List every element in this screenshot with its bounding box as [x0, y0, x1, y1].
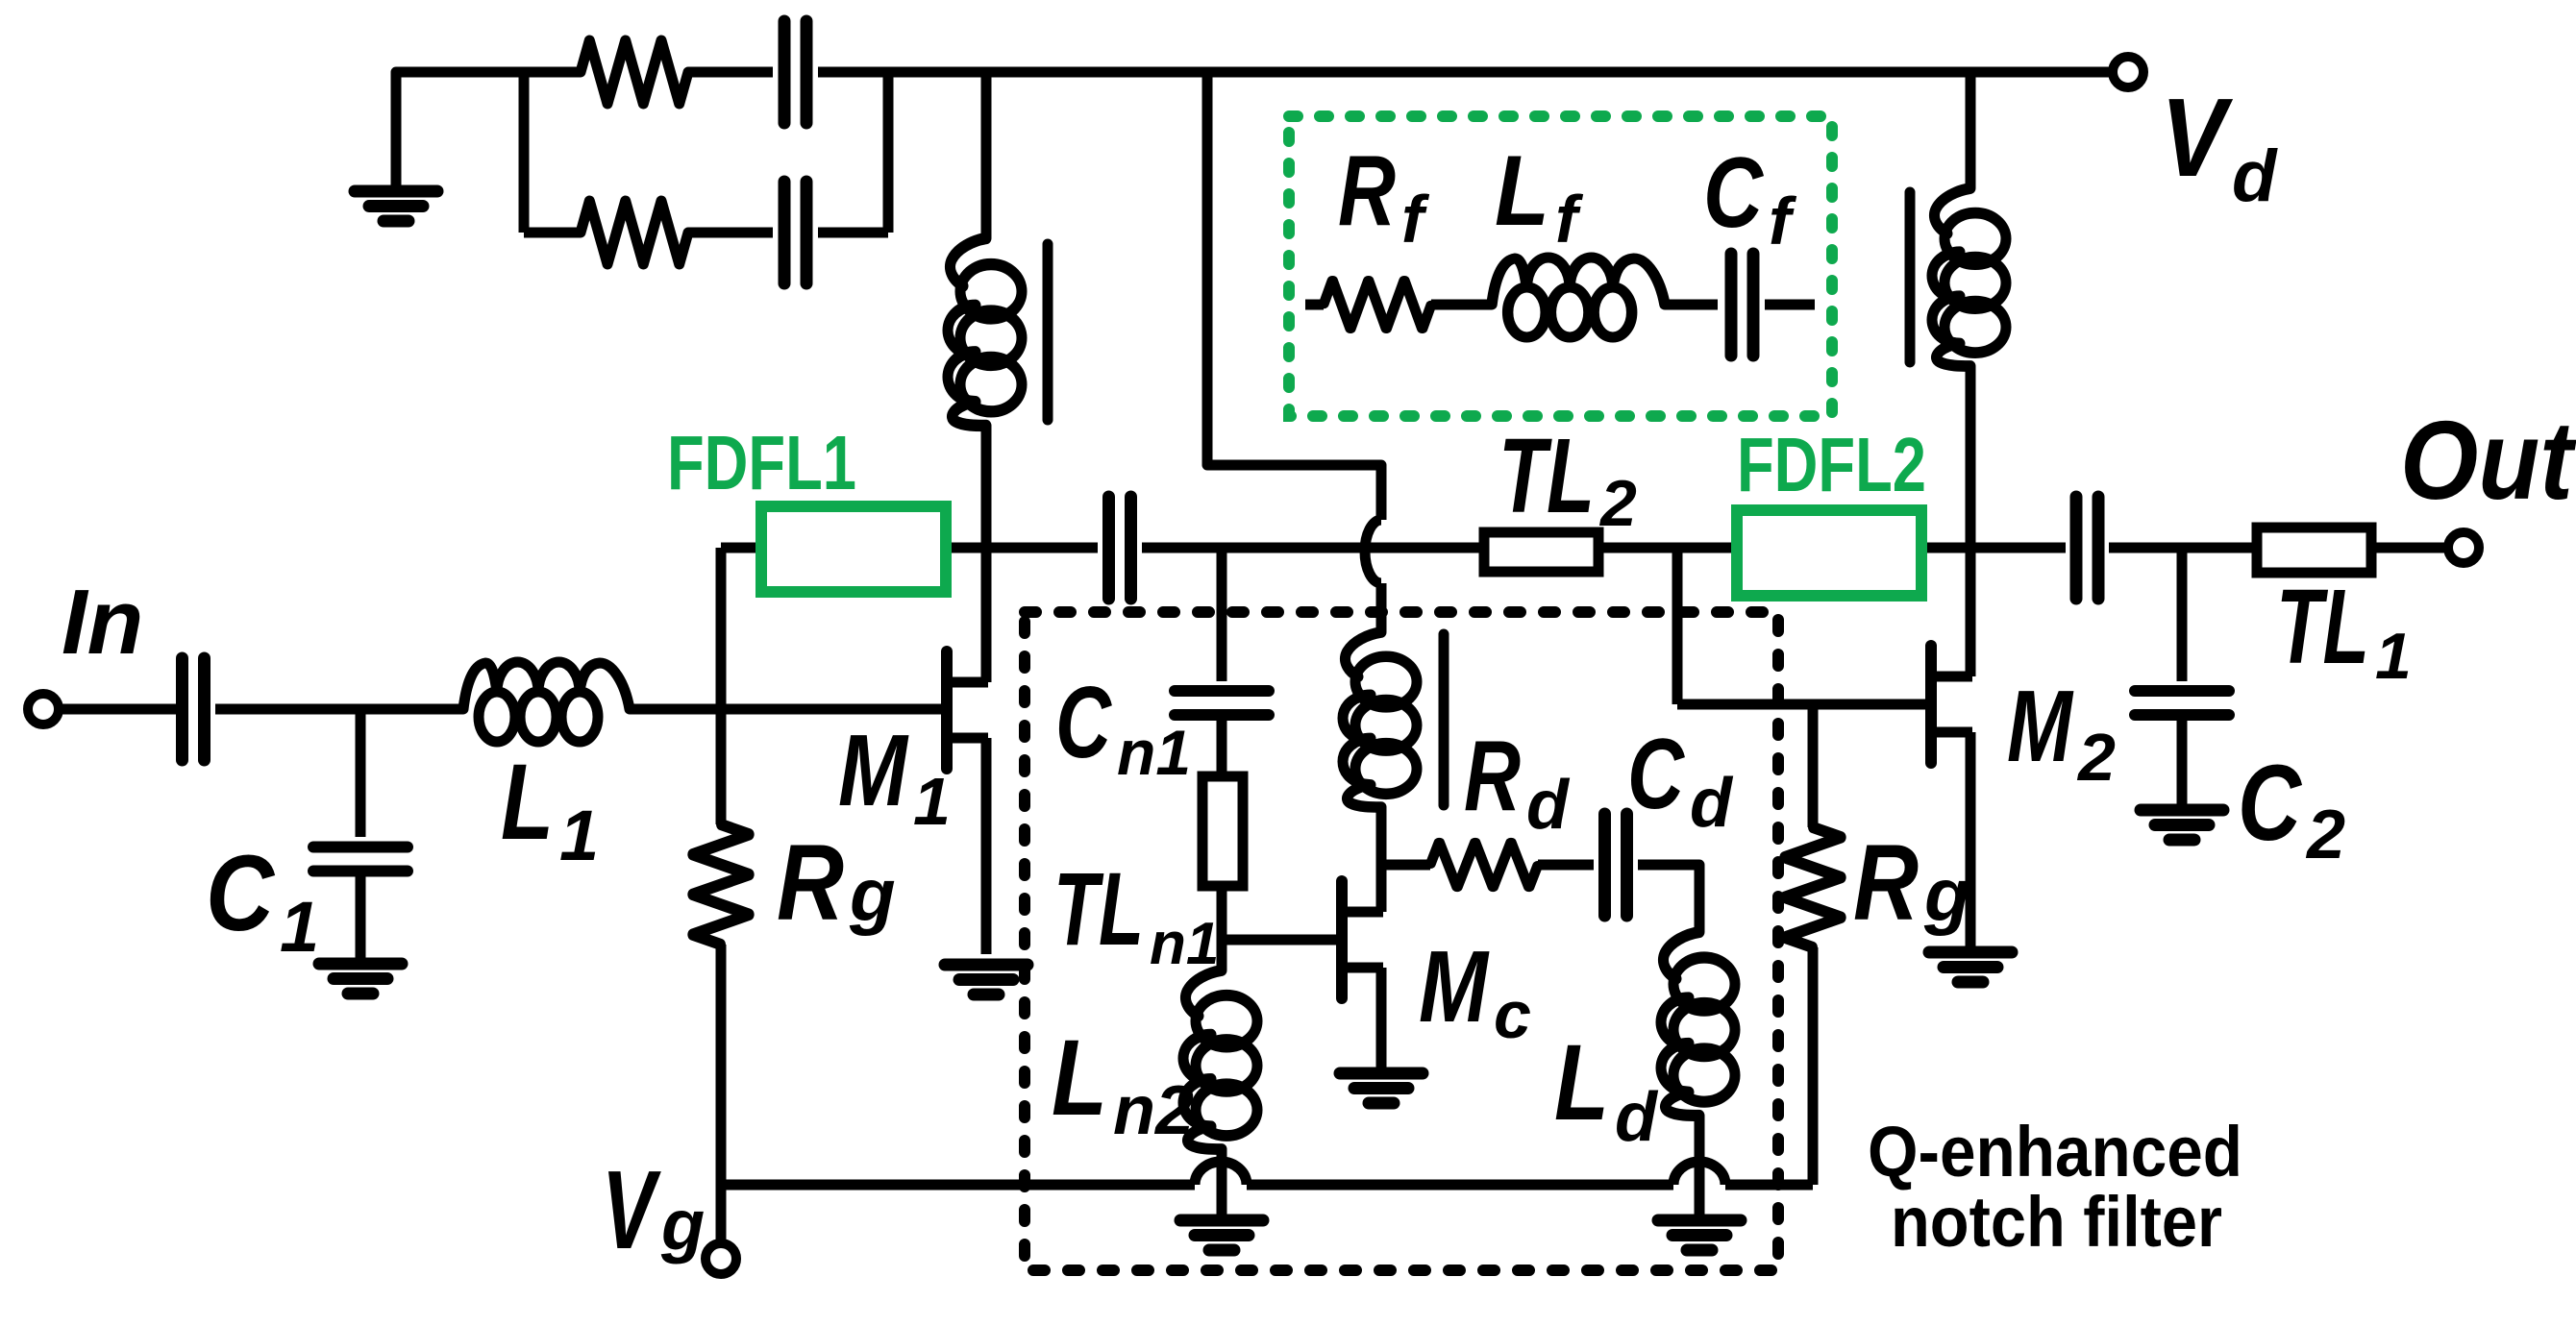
- wire: to Vg: [716, 945, 727, 1243]
- ground (Ld): [1658, 1220, 1741, 1250]
- wire: C2 branch: [2177, 548, 2188, 681]
- svg-text:2: 2: [2305, 797, 2345, 873]
- wire: [1695, 1116, 1705, 1218]
- ground (Mc source): [1340, 1073, 1423, 1103]
- wire: bus hop over Ln2 ground: [1195, 1162, 1247, 1185]
- transmission line TL1: [2257, 528, 2371, 573]
- svg-text:1: 1: [559, 796, 599, 875]
- wire: interstage row: [721, 543, 1098, 553]
- svg-text:notch filter: notch filter: [1891, 1182, 2222, 1262]
- wire: [2177, 720, 2188, 808]
- wire: ground to top rail: [396, 72, 581, 192]
- core bar (Vd choke): [1905, 192, 1916, 362]
- svg-text:1: 1: [280, 887, 319, 967]
- wire: row: [1921, 543, 2066, 553]
- wire: [818, 228, 888, 238]
- svg-text:1: 1: [913, 764, 951, 839]
- wire: Cd to Ld: [1638, 865, 1699, 932]
- wire: [688, 228, 773, 238]
- resistor (bias, bottom): [581, 201, 688, 264]
- resistor (bias, top): [581, 40, 688, 104]
- wire: bus hop over Ld ground: [1673, 1162, 1725, 1185]
- ground (C2): [2141, 810, 2223, 840]
- Vg terminal: [706, 1243, 736, 1274]
- svg-text:M: M: [2007, 670, 2074, 783]
- svg-text:2: 2: [2076, 720, 2116, 795]
- wire: Rd lead: [1381, 860, 1430, 871]
- resistor Rg (left): [692, 824, 749, 945]
- svg-text:n1: n1: [1117, 717, 1191, 788]
- wire: input: [59, 704, 177, 715]
- capacitor (bypass, bottom): [784, 182, 806, 283]
- wire: M2 drain: [1966, 366, 1976, 676]
- transistor M1: [947, 651, 988, 769]
- capacitor (output coupling): [2076, 497, 2098, 599]
- ground (M1 source): [945, 965, 1028, 994]
- svg-text:FDFL1: FDFL1: [667, 420, 856, 505]
- wire: Mc gate: [1222, 935, 1337, 945]
- svg-text:2: 2: [1598, 467, 1637, 540]
- wire: feedback tap: [1207, 72, 1381, 520]
- wire: [1665, 300, 1718, 310]
- wire: [1217, 1149, 1227, 1218]
- svg-text:R: R: [1338, 135, 1396, 247]
- wire: row: [2109, 543, 2257, 553]
- ground (M2 source): [1929, 952, 2012, 982]
- wire: C1 branch: [356, 709, 366, 837]
- svg-text:L: L: [1052, 1018, 1107, 1138]
- svg-text:TL: TL: [1053, 850, 1144, 967]
- svg-text:d: d: [1615, 1079, 1659, 1156]
- capacitor C1: [313, 847, 408, 872]
- FDFL1 block: [761, 506, 946, 592]
- svg-text:V: V: [602, 1147, 661, 1272]
- svg-text:TL: TL: [2276, 568, 2369, 686]
- wire: branch merge: [883, 72, 894, 233]
- wire: Vg bus: [1725, 1180, 1813, 1191]
- svg-text:L: L: [1554, 1022, 1609, 1142]
- resistor Rd: [1430, 842, 1538, 888]
- core bar (Mc choke): [1439, 634, 1449, 805]
- capacitor (bypass, top): [784, 21, 806, 123]
- Vd terminal: [2113, 57, 2143, 87]
- svg-text:C: C: [1703, 137, 1765, 249]
- wire: [1217, 886, 1227, 970]
- wire: Rf lead: [1305, 300, 1324, 310]
- wire: Vg bus: [721, 1180, 1195, 1191]
- svg-text:C: C: [1055, 666, 1112, 779]
- svg-text:Q-enhanced: Q-enhanced: [1868, 1112, 2242, 1191]
- svg-text:L: L: [501, 742, 554, 862]
- svg-text:g: g: [849, 852, 896, 937]
- FDFL2 block: [1737, 510, 1921, 596]
- wire: Mc drain: [1376, 807, 1387, 912]
- inductor (M1 drain choke): [948, 238, 1022, 426]
- svg-text:M: M: [838, 714, 909, 827]
- resistor Rg (right): [1784, 827, 1841, 947]
- ground (C1): [319, 964, 402, 994]
- svg-text:d: d: [2232, 135, 2278, 217]
- Out terminal: [2448, 532, 2479, 563]
- svg-text:C: C: [206, 833, 276, 953]
- svg-text:d: d: [1526, 767, 1571, 844]
- inductor (Mc drain choke): [1343, 632, 1417, 807]
- ground (Ln2): [1180, 1220, 1263, 1250]
- wire: hop over row: [1365, 520, 1381, 583]
- wire: [1376, 583, 1387, 632]
- svg-text:C: C: [1627, 719, 1685, 830]
- wire: Vd rail: [818, 67, 2113, 78]
- wire: [688, 67, 773, 78]
- svg-text:M: M: [1419, 930, 1490, 1044]
- wire: Vd choke drop: [1966, 72, 1976, 188]
- ground (top-left): [355, 191, 437, 221]
- svg-text:R: R: [1464, 721, 1521, 832]
- FDFL detail box (green dashed): [1289, 116, 1832, 416]
- wire: [524, 228, 581, 238]
- svg-text:R: R: [777, 823, 844, 943]
- svg-text:C: C: [2238, 743, 2303, 863]
- svg-text:TL: TL: [1499, 417, 1595, 535]
- svg-text:Out: Out: [2400, 398, 2576, 523]
- transmission line TLn1: [1202, 776, 1243, 886]
- transmission line TL2: [1484, 532, 1598, 572]
- wire: row: [1142, 543, 1484, 553]
- wire: M1 drain: [981, 426, 992, 682]
- svg-text:d: d: [1690, 765, 1734, 842]
- wire: [1431, 300, 1492, 310]
- resistor Rf: [1324, 280, 1431, 329]
- inductor L1: [463, 662, 630, 742]
- transistor M2: [1931, 646, 1972, 763]
- wire: Vg bus: [1247, 1180, 1673, 1191]
- svg-text:R: R: [1853, 823, 1919, 943]
- capacitor Cd: [1605, 814, 1627, 916]
- core bar (M1 choke): [1043, 244, 1053, 420]
- capacitor Cn1: [1175, 691, 1269, 715]
- Q-enhanced notch filter box: [1025, 612, 1778, 1270]
- svg-text:n2: n2: [1113, 1072, 1194, 1149]
- wire: M1 gate: [630, 704, 943, 715]
- svg-text:L: L: [1495, 135, 1549, 247]
- svg-text:g: g: [1923, 852, 1970, 937]
- wire: [215, 704, 463, 715]
- wire: to Out: [2371, 543, 2448, 553]
- wire: row: [1598, 543, 1737, 553]
- svg-text:c: c: [1494, 977, 1531, 1052]
- wire: [1217, 720, 1227, 778]
- svg-text:FDFL2: FDFL2: [1737, 422, 1926, 507]
- wire: Cn1 branch: [1217, 548, 1227, 681]
- wire: FDFL1 left drop: [716, 548, 727, 824]
- inductor Lf: [1492, 258, 1665, 337]
- capacitor (input coupling): [183, 658, 205, 760]
- wire: M2 gate drop: [1672, 548, 1683, 704]
- inductor (Vd choke): [1932, 188, 2006, 366]
- wire: M1 source: [981, 738, 992, 954]
- wire: Mc source: [1376, 968, 1387, 1070]
- wire: M2 gate: [1677, 700, 1927, 710]
- svg-text:1: 1: [2375, 620, 2412, 693]
- capacitor Cf: [1731, 254, 1753, 356]
- wire: RC branch split: [519, 72, 530, 233]
- capacitor C2: [2135, 691, 2229, 715]
- svg-text:V: V: [2161, 75, 2234, 200]
- inductor Ld: [1661, 932, 1735, 1116]
- wire: [1765, 300, 1815, 310]
- svg-text:g: g: [660, 1185, 705, 1265]
- capacitor (interstage): [1109, 497, 1131, 599]
- inductor Ln2: [1183, 970, 1257, 1149]
- transistor Mc: [1342, 881, 1383, 998]
- wire: [1538, 860, 1594, 871]
- wire: Rg right bottom: [1808, 947, 1819, 1185]
- wire: M2 source: [1966, 732, 1976, 949]
- wire: choke drop: [981, 72, 992, 238]
- wire: [356, 876, 366, 961]
- wire: Rg right top: [1808, 704, 1819, 827]
- In terminal: [28, 694, 59, 724]
- svg-text:n1: n1: [1150, 911, 1219, 977]
- svg-text:In: In: [62, 571, 143, 674]
